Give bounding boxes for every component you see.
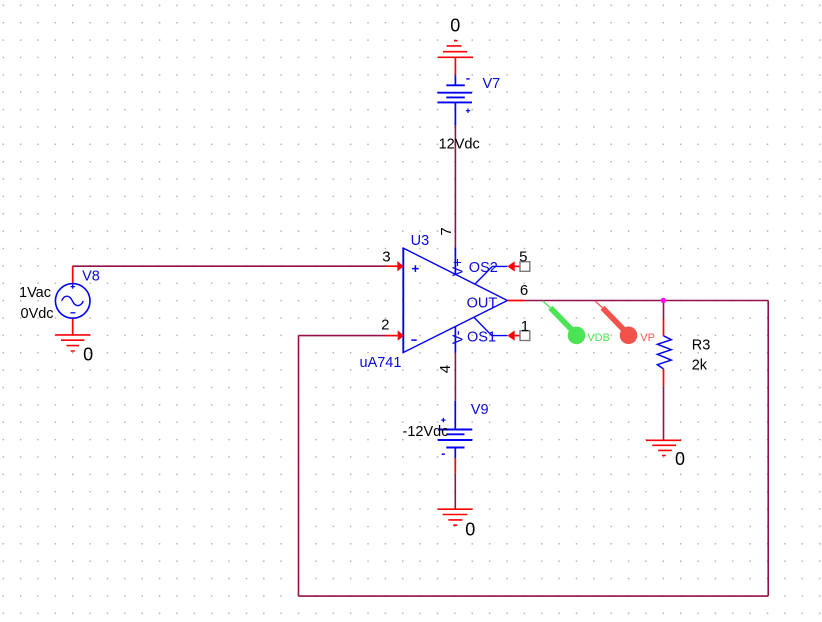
V8 value label 0Vdc <box>21 306 54 322</box>
probe label VP <box>640 332 655 344</box>
svg-text:7: 7 <box>438 227 455 235</box>
wire feedback right vertical segment <box>767 301 769 597</box>
pin number 3 <box>382 249 390 266</box>
wire R3 to ground <box>663 386 665 440</box>
svg-text:1Vac: 1Vac <box>19 285 51 301</box>
wire op-amp pin 4 to V9 <box>454 353 456 401</box>
wire V9 to ground <box>454 473 456 509</box>
svg-text:V-: V- <box>450 330 466 344</box>
V7 reference label <box>483 76 501 92</box>
svg-text:0Vdc: 0Vdc <box>21 306 54 322</box>
probe marker VDB (green) <box>543 301 586 344</box>
svg-text:2k: 2k <box>692 357 708 373</box>
svg-text:0: 0 <box>465 519 475 539</box>
resistor R3 <box>657 319 671 387</box>
V7 value label 12Vdc <box>439 137 480 153</box>
wire net from V8 to op-amp pin 3 <box>73 265 386 267</box>
wire output junction down to R3 <box>663 301 665 319</box>
svg-text:1: 1 <box>521 318 529 335</box>
pin 6 OUT of U3 <box>507 300 525 302</box>
op-amp U3 uA741 <box>403 248 507 352</box>
svg-text:3: 3 <box>382 249 390 266</box>
ground 0 above V7 (inverted) <box>438 41 473 76</box>
pin number 6 <box>520 282 528 299</box>
svg-text:V8: V8 <box>82 269 100 285</box>
svg-text:0: 0 <box>83 344 93 364</box>
svg-text:V7: V7 <box>483 76 501 92</box>
svg-text:5: 5 <box>519 248 527 265</box>
ground 0 below V9 <box>438 509 473 525</box>
ground net label 0 (V9) <box>465 519 475 539</box>
svg-text:U3: U3 <box>411 233 430 249</box>
pin number 7 (rotated) <box>438 227 455 235</box>
pin name V+ (rotated) <box>450 258 466 276</box>
pin name OS1 <box>467 329 496 345</box>
V8 value label 1Vac <box>19 285 51 301</box>
R3 value label 2k <box>692 357 708 373</box>
ground net label 0 (V7) <box>450 16 460 36</box>
V9 value label -12Vdc <box>403 424 449 440</box>
voltage source V9 (-12Vdc battery) <box>438 401 473 474</box>
svg-text:12Vdc: 12Vdc <box>439 137 480 153</box>
svg-text:R3: R3 <box>692 338 711 354</box>
node junction dot on output net <box>661 298 666 303</box>
wire V7 to op-amp pin 7 <box>454 126 456 248</box>
op-amp U3 reference label <box>411 233 430 249</box>
pin 1 stub OS1 <box>474 317 530 341</box>
svg-text:6: 6 <box>520 282 528 299</box>
svg-text:uA741: uA741 <box>360 355 402 371</box>
ground net label 0 (R3) <box>675 449 685 469</box>
ground 0 below R3 <box>646 440 681 455</box>
pin name OS2 <box>469 260 498 276</box>
R3 reference label <box>692 338 711 354</box>
pin 4 stub of U3 (V-) <box>454 326 456 352</box>
probe label VDB <box>587 332 610 344</box>
svg-text:4: 4 <box>437 365 454 373</box>
ground net label 0 (V8) <box>83 344 93 364</box>
svg-text:OS1: OS1 <box>467 329 496 345</box>
ground 0 below V8 <box>55 335 90 351</box>
pin number 5 <box>519 248 527 265</box>
voltage source V8 (AC) <box>55 266 90 335</box>
pin number 1 <box>521 318 529 335</box>
wire feedback bottom horizontal segment <box>299 595 769 597</box>
pin 2 of U3 (inverting input) <box>385 330 404 340</box>
svg-text:VDB: VDB <box>587 332 610 344</box>
svg-text:V+: V+ <box>450 258 466 276</box>
pin name OUT <box>467 295 498 311</box>
wire feedback from output loop to op-amp pin 2 <box>299 335 386 337</box>
svg-text:OS2: OS2 <box>469 260 498 276</box>
svg-text:0: 0 <box>450 16 460 36</box>
svg-text:-12Vdc: -12Vdc <box>403 424 449 440</box>
pin number 2 <box>381 316 389 333</box>
V8 reference label <box>82 269 100 285</box>
svg-text:2: 2 <box>381 316 389 333</box>
probe marker VP (red) <box>595 301 637 344</box>
pin 5 stub OS2 <box>475 261 530 284</box>
wire output net horizontal segment <box>525 300 768 302</box>
voltage source V7 (12Vdc battery) <box>437 75 472 125</box>
wire feedback left vertical segment <box>298 336 300 596</box>
pin number 4 (rotated) <box>437 365 454 373</box>
V9 reference label <box>471 402 489 418</box>
svg-text:V9: V9 <box>471 402 489 418</box>
pin name V- (rotated) <box>450 330 466 344</box>
pin 7 stub of U3 (V+) <box>454 247 456 274</box>
op-amp value label uA741 <box>360 355 402 371</box>
svg-text:OUT: OUT <box>467 295 498 311</box>
svg-text:VP: VP <box>640 332 655 344</box>
svg-text:0: 0 <box>675 449 685 469</box>
pin 3 of U3 (non-inverting input) <box>386 261 404 271</box>
